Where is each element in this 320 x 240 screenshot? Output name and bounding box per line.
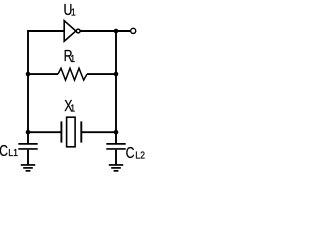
wire: R1 row left segment xyxy=(28,73,58,75)
svg-text:1: 1 xyxy=(71,7,76,19)
svg-text:C: C xyxy=(126,144,135,162)
junction: output node (top right) xyxy=(114,29,119,34)
junction: right rail / R1 xyxy=(114,72,119,77)
capacitor CL2 bottom plate xyxy=(106,148,125,150)
inverter U1 triangle xyxy=(64,21,76,42)
wire: X1 row right segment xyxy=(82,131,116,133)
svg-text:1: 1 xyxy=(70,53,75,65)
wire: right vertical rail xyxy=(115,31,117,143)
svg-text:L1: L1 xyxy=(8,147,18,159)
wire: CL1 to ground stem xyxy=(27,150,29,165)
wire: R1 row right segment xyxy=(87,73,116,75)
ground symbol left xyxy=(21,165,36,171)
terminal OUT open circle xyxy=(131,28,136,33)
ground symbol right xyxy=(109,165,124,171)
svg-text:C: C xyxy=(0,143,8,161)
crystal X1 right electrode plate xyxy=(80,121,82,142)
capacitor CL1 bottom plate xyxy=(18,148,37,150)
wire: U1 output to OUT terminal xyxy=(80,30,130,32)
svg-text:1: 1 xyxy=(70,103,75,115)
svg-text:L2: L2 xyxy=(135,150,145,162)
capacitor CL2 top plate xyxy=(106,143,125,145)
crystal X1 left electrode plate xyxy=(60,121,62,142)
inverter U1 output bubble xyxy=(76,29,80,33)
wire: X1 row left segment xyxy=(28,131,61,133)
junction: left rail / R1 xyxy=(26,72,31,77)
capacitor CL1 top plate xyxy=(18,143,37,145)
wire: CL2 to ground stem xyxy=(115,150,117,165)
junction: right rail / X1 xyxy=(114,130,119,135)
junction: left rail / X1 xyxy=(26,130,31,135)
wire: top horizontal from left rail to U1 input xyxy=(27,30,64,32)
resistor R1 zigzag xyxy=(58,68,87,80)
crystal X1 body rectangle xyxy=(67,117,76,147)
wire: left vertical rail xyxy=(27,30,29,143)
